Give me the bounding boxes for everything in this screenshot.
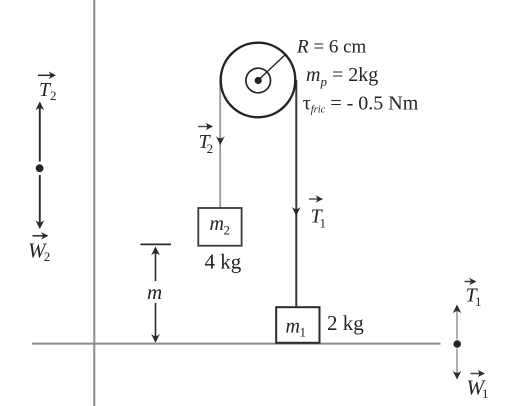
svg-text:4 kg: 4 kg bbox=[205, 250, 242, 274]
FBD right: W1 over-arrow bbox=[471, 370, 486, 378]
svg-text:1: 1 bbox=[482, 386, 489, 401]
svg-text:m: m bbox=[147, 280, 162, 304]
arrowhead on right rope (T1 direction) bbox=[292, 207, 301, 216]
FBD right: particle dot bbox=[453, 340, 461, 348]
FBD left: line lower segment bbox=[39, 175, 41, 228]
box m2 bbox=[198, 208, 241, 246]
box m1 bbox=[276, 307, 319, 343]
svg-text:1: 1 bbox=[475, 294, 482, 309]
distance line upper segment bbox=[155, 248, 157, 281]
rope left (to m2) bbox=[219, 80, 221, 209]
FBD left: up arrowhead bbox=[35, 102, 44, 111]
pulley axle dot bbox=[255, 77, 262, 84]
svg-text:2: 2 bbox=[207, 141, 214, 156]
distance tick mark bbox=[140, 243, 171, 245]
FBD right: down arrowhead bbox=[453, 371, 462, 380]
svg-text:2 kg: 2 kg bbox=[327, 311, 364, 335]
FBD right: line upper segment bbox=[456, 306, 458, 340]
distance arrow down head bbox=[151, 334, 160, 343]
svg-text:m: m bbox=[286, 316, 300, 338]
FBD left: down arrowhead bbox=[35, 220, 44, 229]
svg-text:2: 2 bbox=[50, 88, 57, 103]
svg-text:m: m bbox=[210, 213, 224, 235]
FBD right: line lower segment bbox=[456, 349, 458, 379]
FBD left: line upper segment bbox=[39, 103, 41, 162]
T1 vector arrow over rope label bbox=[309, 195, 323, 203]
arrowhead on left rope (T2 direction) bbox=[216, 136, 225, 145]
FBD left: particle dot bbox=[36, 164, 44, 172]
FBD left: W2 over-arrow bbox=[33, 232, 49, 240]
FBD right: T1 over-arrow bbox=[465, 278, 477, 286]
svg-text:2: 2 bbox=[224, 223, 231, 238]
svg-text:R = 6 cm: R = 6 cm bbox=[296, 37, 367, 58]
svg-text:mp = 2kg: mp = 2kg bbox=[306, 64, 378, 89]
pulley inner hub circle bbox=[246, 68, 271, 93]
FBD right: up arrowhead bbox=[453, 305, 462, 314]
rope right (to m1) bbox=[295, 80, 297, 307]
svg-text:1: 1 bbox=[320, 216, 327, 231]
vertical axis line bbox=[93, 0, 95, 406]
distance arrow up head bbox=[151, 247, 160, 256]
svg-text:1: 1 bbox=[300, 325, 307, 340]
svg-text:2: 2 bbox=[44, 249, 51, 264]
distance line lower segment bbox=[155, 303, 157, 341]
pulley spoke bbox=[258, 54, 286, 81]
T2 vector arrow over rope label bbox=[198, 123, 213, 131]
pulley outer wheel bbox=[221, 43, 296, 118]
FBD left: T2 over-arrow bbox=[38, 72, 56, 80]
ground line bbox=[32, 343, 441, 345]
